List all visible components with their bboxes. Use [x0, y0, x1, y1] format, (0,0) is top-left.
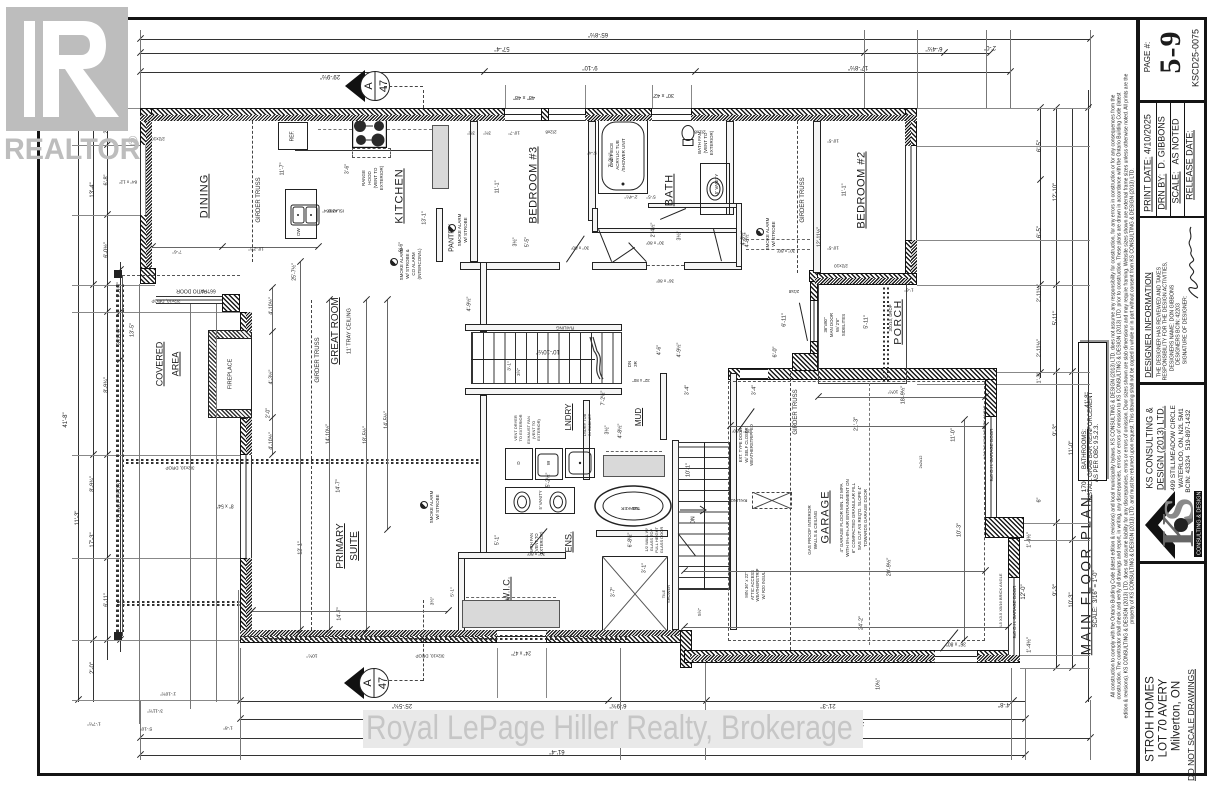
basement stairs	[678, 442, 730, 590]
fireplace bump-out	[208, 330, 252, 418]
garage front wall s	[1008, 538, 1020, 578]
wall inner band	[815, 278, 911, 284]
drawing title	[1079, 495, 1093, 656]
dining window	[140, 145, 152, 215]
section cut vertical	[423, 90, 424, 108]
attic access hatch	[752, 492, 792, 509]
garage centre line	[869, 383, 870, 645]
room label MUD	[635, 408, 643, 426]
girder truss line	[252, 121, 253, 262]
entry corner block	[792, 353, 818, 371]
bath vanity	[700, 163, 730, 215]
mud closet rod	[606, 451, 662, 452]
smoke alarm	[420, 501, 428, 509]
primary/great room dim chains	[272, 288, 273, 455]
garage north wall	[728, 368, 997, 380]
post line dotted	[116, 282, 119, 632]
hall south wall w	[460, 262, 560, 270]
porch drop beam dotted	[883, 283, 885, 382]
wall inner band	[585, 115, 652, 121]
bed3/bath wall	[588, 121, 596, 221]
bedroom2 south wall	[815, 273, 917, 285]
smoke alarm	[756, 228, 764, 236]
garage dims	[854, 417, 860, 431]
title block: designer information	[1140, 382, 1207, 385]
kitchen double sink	[290, 196, 312, 226]
wall inner band	[240, 630, 497, 636]
girder truss line	[797, 121, 798, 273]
island with sink	[285, 189, 317, 239]
top dimension chains	[140, 39, 1090, 40]
covered area extension verticals	[139, 284, 140, 724]
dining dim chain	[152, 247, 318, 248]
range	[352, 118, 387, 148]
room label DINING	[200, 174, 211, 219]
interior dim line 14'-7	[252, 611, 448, 612]
stairwell east wall	[730, 373, 737, 630]
girder truss line	[311, 300, 312, 630]
foyer-garage door opening	[740, 369, 768, 379]
section marker A/47 top	[345, 70, 391, 102]
section cut vertical bottom	[423, 600, 424, 681]
room label BATH	[665, 174, 676, 207]
pantry wall w	[436, 208, 443, 262]
right dimension chains	[1040, 108, 1041, 378]
wall inner band	[146, 121, 152, 268]
bed2 east wall n	[905, 108, 917, 146]
window mullion	[541, 108, 549, 121]
porch slab	[818, 281, 907, 384]
laundry tub	[565, 448, 595, 478]
bed2 east wall s	[905, 240, 917, 285]
west wall below fireplace	[240, 418, 252, 455]
room label GARAGE	[821, 490, 832, 543]
top wall segment bed2	[691, 108, 917, 121]
tub/shower	[598, 118, 648, 194]
bottom extension lines	[140, 700, 141, 760]
stairwell west wall	[672, 440, 679, 630]
title block: KS consulting section	[1140, 561, 1207, 564]
wic west wall	[458, 552, 465, 632]
top exterior wall (dining/kitchen)	[140, 108, 505, 121]
room label BEDROOM 3	[529, 146, 540, 223]
garage interior dim lines	[730, 426, 985, 427]
ens vanity	[505, 487, 575, 514]
drop beam dotted at south wall	[240, 635, 630, 637]
wall inner band	[691, 115, 917, 121]
dashed line	[746, 239, 810, 240]
kitchen/bed3 wall	[470, 121, 478, 262]
REALTOR watermark text	[4, 132, 141, 166]
wall inner band	[246, 418, 252, 455]
mud east wall	[660, 373, 667, 440]
primary suite window	[240, 455, 252, 558]
wall inner band	[905, 121, 911, 146]
stair north wall	[465, 324, 622, 331]
wall inner band	[546, 630, 680, 636]
toilet	[680, 124, 696, 146]
bath south wall	[648, 203, 740, 208]
signature squiggle	[1184, 225, 1202, 300]
smoke alarm	[390, 258, 398, 266]
bath window 30x42	[652, 108, 691, 121]
stair south wall	[465, 388, 622, 395]
kitchen tall cabinets	[432, 125, 449, 189]
wall inner band	[246, 558, 252, 630]
door swing leaves	[566, 235, 585, 262]
svg-text:47: 47	[377, 677, 389, 689]
KS logo graphic	[1143, 487, 1203, 563]
stair break lines	[588, 335, 604, 381]
stair down arrow	[680, 500, 708, 520]
front man door opening	[810, 301, 818, 341]
left exterior wall (dining)	[140, 108, 152, 272]
room label ENS	[565, 531, 574, 552]
garage front step	[985, 517, 1024, 538]
bottom dimension chains	[240, 701, 1025, 702]
title block: client / project	[1145, 676, 1157, 762]
dashed line	[387, 129, 432, 130]
svg-text:A: A	[362, 679, 374, 687]
patio door	[156, 296, 222, 304]
front wall lower	[810, 341, 818, 364]
garage bottom wall e	[977, 650, 1020, 663]
ens/shower wall	[596, 530, 668, 537]
garage bottom wall	[684, 650, 940, 663]
vanity sink	[705, 175, 725, 203]
front wall upper	[810, 277, 818, 301]
soaker tub	[594, 485, 672, 527]
hall south wall e	[684, 262, 742, 270]
hall north wall	[592, 228, 742, 233]
great room/hall wall	[480, 262, 487, 332]
room label PRIMARY SUITE	[336, 523, 346, 568]
laundry appliances	[505, 448, 533, 480]
garage interior dashed ledge	[728, 381, 985, 641]
garage man door 36x80	[935, 650, 977, 663]
disclaimer fine print	[1111, 95, 1116, 698]
room label BEDROOM 2	[857, 151, 868, 228]
title block: print date rows	[1140, 216, 1207, 218]
wall inner band	[140, 115, 505, 121]
covered area posts/beams	[114, 270, 122, 278]
closet west wall	[592, 208, 598, 232]
window extension stubs	[505, 85, 506, 108]
covered area edge lines	[122, 276, 123, 636]
bottom wall (ens/shower)	[546, 630, 692, 643]
assorted dimension labels	[280, 163, 285, 176]
wall block right of patio door	[222, 294, 240, 312]
tile shower	[602, 556, 668, 632]
kitchen counter edge	[295, 150, 432, 151]
wall inner band	[911, 240, 917, 273]
closet rod dashed	[466, 597, 556, 598]
bed2 window	[905, 146, 917, 240]
dashed line	[746, 249, 810, 250]
section cut dashes	[384, 86, 423, 87]
room label GREAT ROOM	[331, 297, 341, 364]
smoke alarm	[448, 224, 456, 232]
mud bench	[603, 455, 665, 477]
entry top block	[809, 270, 818, 282]
top wall segment	[585, 108, 652, 121]
ensuite window	[497, 630, 546, 643]
wall inner band	[246, 312, 252, 332]
garage notes	[840, 483, 845, 552]
garage front wall n	[985, 372, 997, 417]
svg-text:A: A	[363, 82, 375, 90]
dining SW corner	[140, 268, 156, 284]
wic north wall	[458, 552, 566, 559]
title block: PAGE box	[1140, 100, 1207, 103]
wic shelves	[462, 600, 560, 628]
lndry/ens wall	[583, 400, 590, 480]
dashed line	[122, 275, 240, 276]
wall inner band	[690, 655, 935, 661]
bath/bed2 wall	[726, 121, 734, 215]
fridge	[278, 122, 308, 150]
bed2 west wall	[813, 121, 821, 273]
covered area south beam dotted	[117, 601, 242, 603]
Royal LePage watermark	[363, 710, 863, 748]
REALTOR watermark logo	[6, 7, 128, 131]
upper stairs	[471, 332, 622, 384]
title block divider line	[1136, 17, 1140, 776]
jog wall to garage	[680, 630, 692, 668]
west wall lower	[240, 558, 252, 640]
bottom wall (primary suite)	[240, 630, 497, 643]
hall south wall mid	[592, 262, 647, 270]
svg-text:CONSULTING & DESIGN: CONSULTING & DESIGN	[1197, 492, 1203, 555]
closet east wall	[736, 203, 742, 267]
laundry west wall	[480, 395, 487, 555]
room label KITCHEN	[395, 168, 406, 223]
section cut dashes bottom	[384, 680, 423, 681]
left extension lines	[72, 108, 140, 109]
west wall upper	[240, 312, 252, 332]
right extension lines	[917, 108, 1090, 109]
left dimension chains	[78, 90, 79, 702]
room label WIC	[503, 577, 512, 602]
wall inner band	[977, 655, 1020, 661]
girder truss line	[790, 373, 791, 650]
room label COVERED AREA	[156, 342, 165, 387]
garage door 1 opening	[985, 417, 997, 517]
garage door 2 opening	[1008, 578, 1020, 655]
cased opening 36x80	[647, 265, 684, 266]
range hood dashed outline	[352, 148, 391, 158]
dashed line	[318, 129, 352, 130]
top extension lines	[140, 30, 141, 108]
bathrooms note box	[1078, 342, 1107, 481]
drop beam great room/primary	[126, 459, 480, 461]
section marker A/47 bottom	[344, 667, 390, 699]
room label LNDRY	[565, 404, 573, 431]
covered area post dim labels	[160, 690, 176, 695]
bedroom3 windows 48x48	[505, 108, 585, 121]
dining window label	[119, 179, 137, 184]
